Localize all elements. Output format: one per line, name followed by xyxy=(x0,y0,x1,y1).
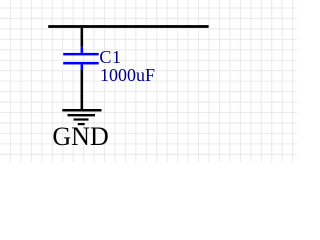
svg-text:1000uF: 1000uF xyxy=(100,65,155,85)
svg-text:C1: C1 xyxy=(99,47,121,67)
wire xyxy=(81,28,84,47)
svg-text:GND: GND xyxy=(52,122,108,151)
wire xyxy=(48,25,208,28)
wire xyxy=(81,69,84,109)
capacitor C1 xyxy=(63,47,98,70)
ground xyxy=(62,109,101,125)
